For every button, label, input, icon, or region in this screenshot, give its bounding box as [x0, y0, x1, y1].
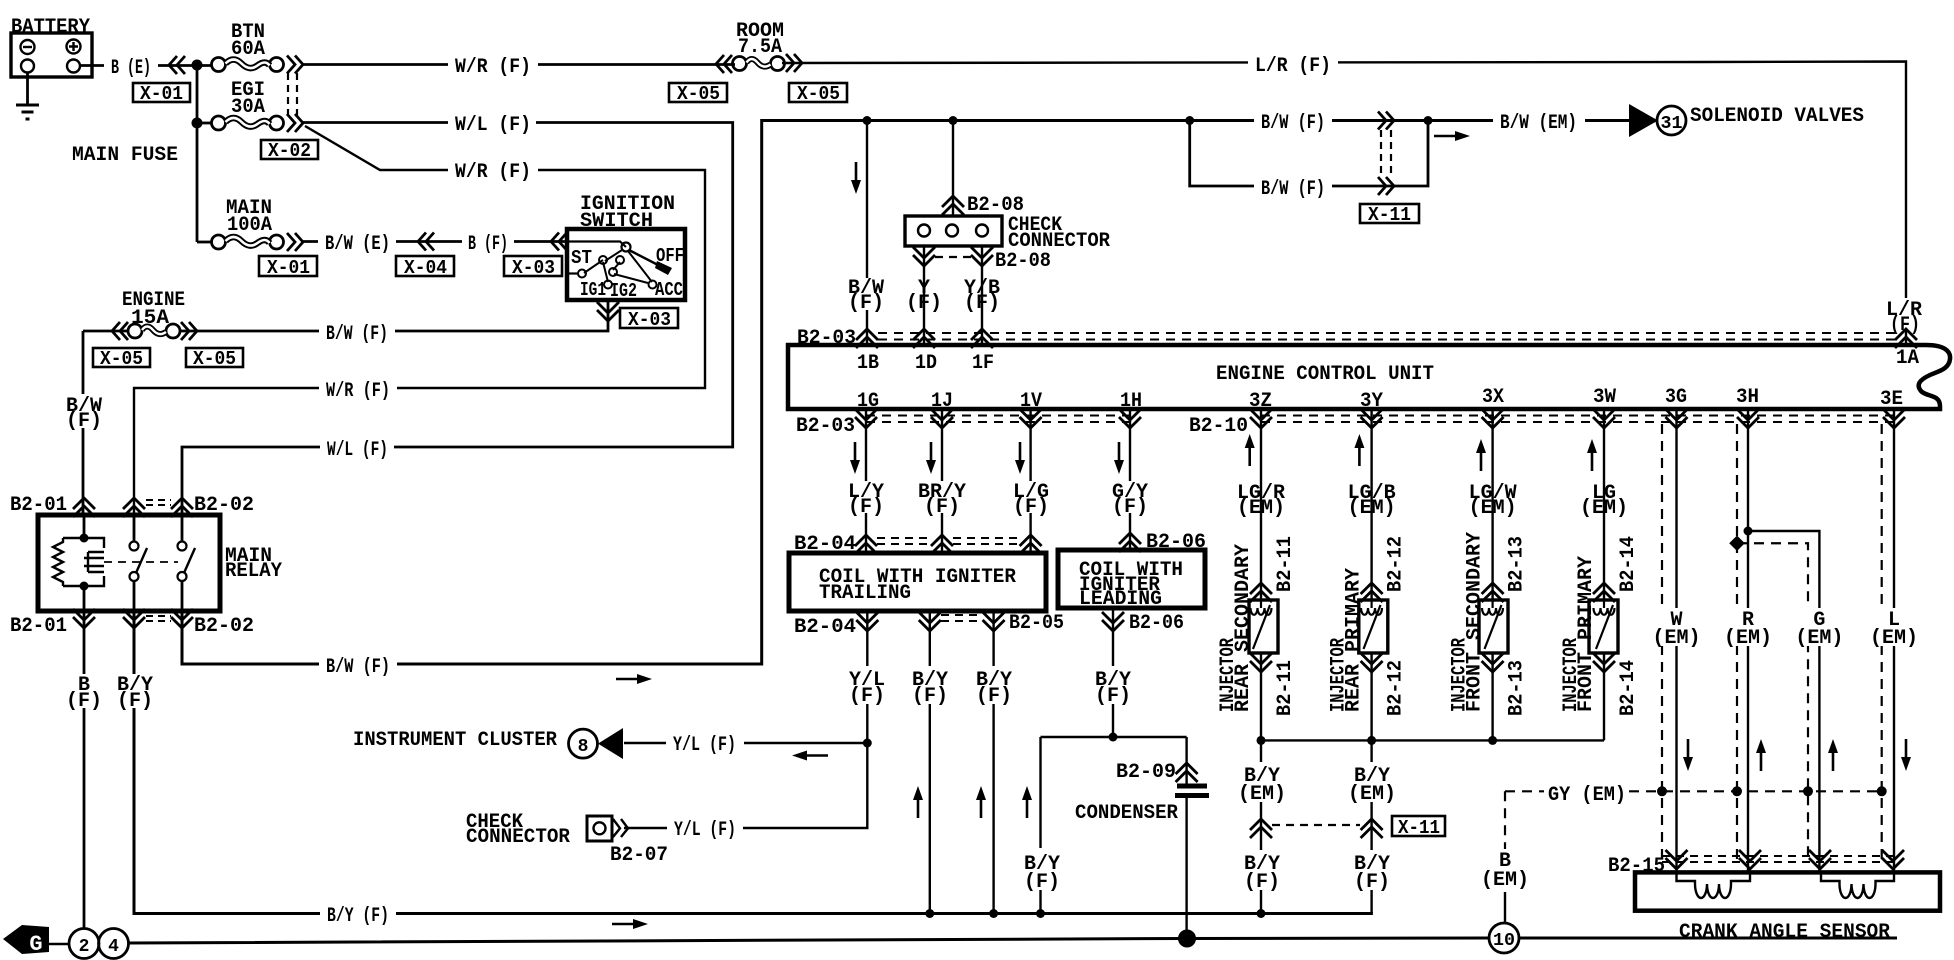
- crank coil 2: [1821, 874, 1894, 898]
- svg-text:W/R (F): W/R (F): [326, 380, 390, 403]
- dashed pair B2-05: [941, 615, 982, 621]
- main ground bus: [129, 938, 1898, 943]
- wire 1B drop: [866, 121, 868, 346]
- node injector bus 3: [1488, 736, 1497, 745]
- relay switch 1 contact bottom: [130, 572, 139, 581]
- crank coil 1: [1677, 874, 1751, 898]
- chevron 1J: [931, 409, 953, 428]
- svg-text:31: 31: [1661, 114, 1683, 134]
- svg-text:10: 10: [1493, 931, 1515, 951]
- chevron B2-04 a: [855, 535, 877, 554]
- svg-text:B/Y (F): B/Y (F): [327, 905, 389, 928]
- wire B/Y leading output: [1112, 608, 1114, 737]
- wire 3H solid R column: [1747, 409, 1749, 872]
- chevron 3X: [1482, 409, 1504, 428]
- check connector B2-07 chevron: [613, 819, 628, 837]
- chevron above injector 1: [1250, 583, 1272, 602]
- wire engine fuse left to relay drop: [83, 330, 128, 333]
- chevron left of engine fuse: [112, 322, 128, 340]
- node GY-R: [1732, 786, 1742, 796]
- wire B/W(E)-B(F) to ignition switch: [302, 240, 567, 243]
- node B(E) junction: [192, 60, 203, 71]
- check connector pin 1: [918, 225, 930, 237]
- chevron below injector 4: [1593, 653, 1615, 672]
- svg-text:X-04: X-04: [404, 257, 447, 279]
- X-11 label box top: [1360, 204, 1419, 226]
- chevron B2-08: [942, 196, 964, 215]
- chevron X-11 drop1: [1250, 819, 1272, 838]
- main relay box: [38, 515, 220, 611]
- arrow right on B/W wire: [616, 674, 652, 684]
- svg-text:1F: 1F: [972, 352, 994, 375]
- X-05 label box under room left: [669, 83, 727, 105]
- connector chevron X-01 on B(E): [169, 56, 185, 74]
- circle 31: [1657, 106, 1686, 135]
- svg-text:1D: 1D: [915, 352, 937, 375]
- svg-text:X-05: X-05: [193, 348, 236, 370]
- svg-text:B2-07: B2-07: [610, 844, 668, 867]
- arrow down W column: [1683, 739, 1693, 771]
- svg-text:(F): (F): [117, 690, 153, 713]
- wire G branch solid: [1748, 531, 1819, 872]
- node relay coil bottom: [80, 582, 89, 591]
- arrow down on 1B drop: [851, 162, 861, 194]
- wire W/R(F) top run to ROOM fuse: [302, 63, 735, 66]
- X-05 label box right: [186, 348, 243, 370]
- connector chevron X-04: [418, 233, 434, 251]
- svg-text:(F): (F): [849, 685, 885, 708]
- svg-text:(EM): (EM): [1238, 783, 1286, 806]
- arrow right after solenoid junction: [1434, 131, 1470, 141]
- svg-text:X-02: X-02: [268, 140, 311, 162]
- svg-text:(F): (F): [848, 496, 884, 519]
- wire Y/L to instrument cluster: [624, 742, 867, 744]
- svg-text:INSTRUMENT CLUSTER: INSTRUMENT CLUSTER: [353, 729, 557, 752]
- svg-text:3H: 3H: [1736, 386, 1759, 409]
- label B/Y (F) out2: [909, 666, 951, 708]
- wire G to circle 2: [49, 943, 69, 946]
- svg-text:X-05: X-05: [797, 83, 840, 105]
- dashed pair B2-03 lower run: [866, 416, 1130, 423]
- label LG (EM): [1580, 482, 1628, 520]
- label Y/L (F) vertical run: [846, 666, 889, 708]
- chevron above injector 2: [1361, 583, 1383, 602]
- chevron B2-09: [1176, 763, 1198, 782]
- connector X-11 dashed link vertical: [1381, 130, 1391, 178]
- relay coil resistor zigzag: [53, 538, 63, 586]
- relay coil body: [63, 538, 104, 586]
- injector 4 coil: [1594, 600, 1615, 649]
- arrow up 3Y: [1354, 434, 1364, 466]
- arrow up beside B/Y drop: [1022, 786, 1032, 818]
- svg-text:B/W (F): B/W (F): [326, 656, 390, 679]
- chevron B2-01 top: [73, 498, 95, 517]
- chevron 3Z: [1250, 409, 1272, 428]
- wire B/W(F) relay output up and right to solenoid valves: [182, 121, 1629, 665]
- switch contact IG1: [604, 281, 612, 289]
- svg-text:B2-02: B2-02: [194, 615, 254, 638]
- wire 1F from check connector: [981, 246, 983, 345]
- wire 3X injector 3: [1491, 409, 1493, 740]
- svg-text:(F): (F): [1013, 496, 1049, 519]
- svg-text:(EM): (EM): [1481, 869, 1529, 892]
- arrow left on cluster wire: [792, 751, 828, 761]
- wire 1D from check connector: [923, 246, 925, 345]
- label B/Y (F) leading out: [1092, 666, 1134, 708]
- relay switch 2 contact bottom: [178, 572, 187, 581]
- dashed R shield column: [1736, 424, 1738, 860]
- condenser plates: [1175, 786, 1209, 796]
- chevron B2-15 c: [1809, 850, 1831, 869]
- chevron X-03 below switch: [597, 302, 619, 321]
- wire 3E solid L column: [1893, 409, 1895, 872]
- svg-text:100A: 100A: [227, 214, 272, 237]
- chevron B2-15 b: [1739, 850, 1761, 869]
- chevron below injector 1: [1250, 653, 1272, 672]
- chevron below trailing a: [856, 612, 878, 631]
- fuse MAIN 100A: [212, 235, 284, 249]
- label B/W (F) parallel: [1254, 176, 1332, 196]
- svg-text:B/W (EM): B/W (EM): [1500, 112, 1577, 135]
- switch blade to ST: [584, 250, 622, 273]
- arrow up beside out2: [913, 786, 923, 818]
- svg-text:B/W (E): B/W (E): [325, 233, 390, 256]
- svg-text:SOLENOID VALVES: SOLENOID VALVES: [1690, 105, 1864, 128]
- chevron 3Y: [1361, 409, 1383, 428]
- svg-text:G: G: [29, 932, 42, 957]
- coil with igniter leading box: [1058, 550, 1205, 608]
- svg-text:B2-14: B2-14: [1617, 536, 1640, 592]
- chevron above injector 3: [1482, 583, 1504, 602]
- label W/L (F) top: [448, 112, 536, 132]
- chevron below trailing c: [983, 612, 1005, 631]
- svg-text:X-01: X-01: [140, 83, 183, 105]
- X-01 label box second: [259, 256, 317, 279]
- X-03 label box: [504, 256, 562, 279]
- svg-text:B2-11: B2-11: [1274, 660, 1297, 716]
- svg-text:W/L (F): W/L (F): [327, 439, 388, 462]
- wire 3W injector 4: [1603, 409, 1605, 740]
- chevron B2-01 bottom: [73, 609, 95, 628]
- svg-text:(F): (F): [848, 292, 884, 315]
- wire ST stub: [567, 272, 578, 274]
- node B/Y bus out2: [925, 909, 934, 918]
- injector 4 box: [1589, 600, 1618, 653]
- label W/R (F) diagonal run: [448, 160, 538, 179]
- svg-text:B2-08: B2-08: [995, 250, 1051, 273]
- chevron after BTN fuse: [287, 56, 303, 74]
- chevron B2-02 top a: [123, 498, 145, 517]
- svg-text:B (F): B (F): [468, 233, 508, 256]
- svg-text:3G: 3G: [1665, 386, 1687, 409]
- label G/Y (F): [1110, 481, 1152, 519]
- label B/W (F) at 1B: [846, 277, 888, 315]
- switch OFF stop: [655, 261, 672, 275]
- injector common bus: [1261, 739, 1604, 741]
- connector X-02 dashed link: [288, 73, 297, 117]
- chevron right of ROOM fuse: [786, 54, 802, 72]
- svg-text:1A: 1A: [1896, 347, 1919, 370]
- ignition switch box: [567, 229, 685, 300]
- node Y/L junction: [863, 739, 872, 748]
- svg-text:REAR SECONDARY: REAR SECONDARY: [1232, 544, 1255, 712]
- dashed link X-11 lower: [1272, 824, 1360, 826]
- check connector pin 2: [946, 225, 958, 237]
- wire B/Y(F) drop to bus: [1039, 737, 1041, 913]
- label B (F): [66, 674, 103, 713]
- dashed pair B2-10 run: [1261, 416, 1894, 423]
- fuse ROOM 7.5A: [733, 57, 785, 71]
- switch contact c2: [599, 256, 607, 264]
- check connector pin 3: [976, 225, 988, 237]
- wire 1H to leading coil: [1129, 409, 1131, 550]
- wire MAIN fuse stub: [197, 241, 213, 244]
- dashed link below check connector: [935, 256, 971, 258]
- injector 3 box: [1479, 600, 1508, 653]
- label B/Y (F) drop2: [1350, 850, 1394, 894]
- svg-text:(F): (F): [1024, 871, 1060, 894]
- svg-text:B (E): B (E): [111, 57, 151, 80]
- relay switch 2 contact top: [178, 542, 187, 551]
- chevron 1D: [913, 329, 935, 348]
- chevron left of ROOM fuse: [716, 55, 732, 73]
- svg-text:MAIN FUSE: MAIN FUSE: [72, 144, 178, 167]
- svg-text:(EM): (EM): [1348, 497, 1396, 520]
- arrow right on B/Y bus: [612, 919, 648, 929]
- dashed G shield branch: [1737, 543, 1808, 860]
- svg-text:B2-13: B2-13: [1506, 536, 1529, 592]
- node 3H branch: [1744, 527, 1753, 536]
- svg-text:B2-04: B2-04: [794, 616, 856, 639]
- chevron after EGI fuse: [287, 114, 303, 132]
- battery plus terminal: [67, 40, 81, 54]
- svg-text:ACC: ACC: [655, 279, 683, 301]
- X-05 label box left: [93, 348, 150, 370]
- circle 8: [569, 729, 598, 758]
- ground: [16, 105, 39, 119]
- label B/Y (F) drop1: [1240, 850, 1284, 894]
- svg-text:(EM): (EM): [1469, 497, 1517, 520]
- wire ignition IG leg down: [180, 300, 608, 331]
- svg-text:B/W (F): B/W (F): [1261, 112, 1325, 135]
- svg-text:B/W (F): B/W (F): [1261, 178, 1325, 201]
- wire engine fuse drop to relay: [82, 331, 85, 515]
- svg-text:(F): (F): [1354, 871, 1390, 894]
- injector 2 coil: [1361, 600, 1382, 649]
- check connector box: [905, 216, 1002, 246]
- chevron after MAIN fuse: [287, 233, 303, 251]
- wire B/Y(EM) drop 2: [1370, 740, 1372, 913]
- fuse BTN 60A: [212, 58, 284, 72]
- relay switch 2 stubs: [181, 515, 184, 611]
- svg-text:L/R (F): L/R (F): [1255, 55, 1331, 78]
- label G (EM): [1795, 608, 1843, 650]
- node check connector drop: [949, 116, 958, 125]
- chevron B2-06 top: [1119, 533, 1141, 552]
- wire condenser vertical: [1185, 737, 1187, 938]
- svg-text:(F): (F): [964, 292, 1000, 315]
- relay switch 2 blade: [184, 548, 195, 573]
- crank angle sensor box: [1635, 872, 1940, 910]
- chevron 1H: [1119, 409, 1141, 428]
- svg-text:B2-06: B2-06: [1129, 612, 1184, 635]
- chevron below check pin3: [971, 247, 993, 266]
- svg-text:Y/L (F): Y/L (F): [673, 734, 736, 757]
- relay switch 1 contact top: [130, 542, 139, 551]
- svg-text:B2-05: B2-05: [1009, 612, 1064, 635]
- label B/Y (F) drop: [1020, 848, 1063, 894]
- label LG/W (EM): [1469, 482, 1517, 520]
- svg-text:X-03: X-03: [628, 309, 671, 331]
- arrow up R column: [1756, 739, 1766, 771]
- node EGI junction: [192, 118, 203, 129]
- node main bus big: [1178, 930, 1196, 948]
- solenoid output triangle: [1629, 104, 1658, 137]
- chevron above injector 4: [1593, 583, 1615, 602]
- svg-text:(F): (F): [66, 690, 102, 713]
- chevron X-11 lower: [1378, 177, 1394, 195]
- node injector bus 1: [1257, 736, 1266, 745]
- chevron 3H: [1737, 409, 1759, 428]
- node 1B drop: [863, 116, 872, 125]
- svg-text:(EM): (EM): [1237, 497, 1285, 520]
- wire 3Y injector 2: [1370, 409, 1372, 740]
- node B/Y bus x11: [1257, 909, 1266, 918]
- X-04 label box: [396, 256, 454, 279]
- svg-text:(F): (F): [66, 410, 102, 433]
- switch contact ACC: [649, 281, 657, 289]
- chevron B2-04 b: [931, 535, 953, 554]
- svg-text:W/R (F): W/R (F): [455, 161, 531, 184]
- svg-text:B/W (F): B/W (F): [326, 323, 388, 346]
- arrow up G column: [1828, 739, 1838, 771]
- chevron below trailing b: [919, 612, 941, 631]
- chevron B2-15 a: [1666, 850, 1688, 869]
- svg-text:CRANK ANGLE SENSOR: CRANK ANGLE SENSOR: [1679, 921, 1890, 944]
- switch contact c4: [609, 268, 617, 276]
- wire condenser branch horizontal: [1041, 736, 1187, 738]
- relay switch 1 blade: [136, 548, 147, 573]
- arrow up beside out3: [976, 786, 986, 818]
- wire L/R(F) top run to right corner: [782, 62, 1906, 299]
- wire Y/L from trailing coil: [624, 611, 867, 828]
- label LG/R (EM): [1237, 482, 1285, 520]
- label L/R (F) top: [1248, 52, 1338, 73]
- chevron 1V: [1020, 409, 1042, 428]
- battery box: [11, 33, 92, 77]
- wire check connector drop: [952, 121, 954, 217]
- svg-text:4: 4: [108, 937, 119, 957]
- label B/W (F) on engine fuse line: [319, 321, 395, 341]
- label LG/B (EM): [1348, 482, 1396, 520]
- node B/Y bus drop: [1036, 909, 1045, 918]
- switch contact ST: [578, 270, 586, 278]
- svg-text:RELAY: RELAY: [225, 560, 282, 583]
- chevron 3W: [1593, 409, 1615, 428]
- arrow down 1J: [926, 442, 936, 474]
- svg-text:X-11: X-11: [1398, 817, 1440, 839]
- label B (F): [462, 231, 514, 251]
- dashed link B2-02 bottom: [146, 616, 171, 621]
- svg-text:GY (EM): GY (EM): [1548, 784, 1626, 807]
- fuse EGI 30A: [212, 116, 284, 130]
- svg-text:(F): (F): [976, 685, 1012, 708]
- injector 3 coil: [1482, 600, 1503, 649]
- dashed link B2-02 top: [146, 500, 171, 505]
- node B/Y bus out3: [989, 909, 998, 918]
- chevron below injector 2: [1361, 653, 1383, 672]
- svg-text:IG2: IG2: [610, 280, 637, 302]
- chevron below injector 3: [1482, 653, 1504, 672]
- wire B/W(F) parallel path through X-11: [1190, 121, 1428, 187]
- label W/L (F) lower: [320, 437, 394, 457]
- chevron below check pin1: [913, 247, 935, 266]
- chevron B2-02 bottom b: [171, 609, 193, 628]
- label B/Y (F) relay: [114, 674, 156, 713]
- arrow down 1G: [850, 442, 860, 474]
- label B (EM): [1481, 850, 1529, 892]
- chevron B2-02 top b: [171, 498, 193, 517]
- label B/Y (F) bus: [320, 903, 396, 923]
- chevron B2-04 c: [1020, 535, 1042, 554]
- ground arrow G: [3, 925, 49, 954]
- svg-text:IG1: IG1: [580, 279, 606, 301]
- label B/W (F) relay output: [319, 654, 397, 674]
- chevron X-11 upper: [1378, 112, 1394, 130]
- wire 1J to trailing coil: [941, 409, 943, 553]
- label BR/Y (F): [916, 481, 968, 519]
- ECU box: [788, 345, 1950, 409]
- chevron below leading: [1102, 612, 1124, 631]
- battery lower-right pin: [67, 60, 80, 73]
- svg-text:(EM): (EM): [1348, 783, 1396, 806]
- svg-text:3E: 3E: [1880, 388, 1903, 411]
- svg-text:(F): (F): [1112, 496, 1148, 519]
- wire into switch pivot: [567, 242, 626, 248]
- battery lower-left pin: [21, 60, 34, 73]
- svg-text:2: 2: [79, 937, 90, 957]
- instrument cluster triangle: [598, 728, 623, 759]
- svg-text:(F): (F): [924, 496, 960, 519]
- node relay coil top: [80, 534, 89, 543]
- wire B/Y trailing output 3: [992, 611, 994, 913]
- chevron right of engine fuse: [181, 322, 197, 340]
- svg-text:ENGINE CONTROL UNIT: ENGINE CONTROL UNIT: [1216, 363, 1434, 386]
- svg-text:B2-12: B2-12: [1385, 536, 1408, 592]
- label W (EM): [1652, 608, 1700, 650]
- label B/W (F) top run: [1254, 110, 1332, 130]
- label L/Y (F): [846, 481, 888, 519]
- svg-text:B2-11: B2-11: [1274, 536, 1297, 592]
- svg-text:X-03: X-03: [512, 257, 555, 279]
- svg-text:(F): (F): [1095, 685, 1131, 708]
- label W/R (F) top: [448, 54, 538, 74]
- injector 1 coil: [1251, 600, 1272, 649]
- injector 2 box: [1359, 600, 1388, 653]
- coil with igniter trailing box: [789, 553, 1046, 611]
- chevron 1A into ECU: [1895, 329, 1917, 348]
- label B/Y (EM) drop1: [1238, 762, 1286, 806]
- label L/G (F): [1010, 481, 1052, 519]
- node GY-W: [1657, 786, 1667, 796]
- svg-text:X-01: X-01: [267, 257, 310, 279]
- label B (E): [104, 54, 158, 74]
- node injector bus 2: [1367, 736, 1376, 745]
- dashed pair B2-04: [877, 538, 1019, 544]
- svg-text:Y/L (F): Y/L (F): [674, 819, 736, 842]
- svg-text:3W: 3W: [1593, 386, 1616, 409]
- label L (EM): [1870, 608, 1918, 650]
